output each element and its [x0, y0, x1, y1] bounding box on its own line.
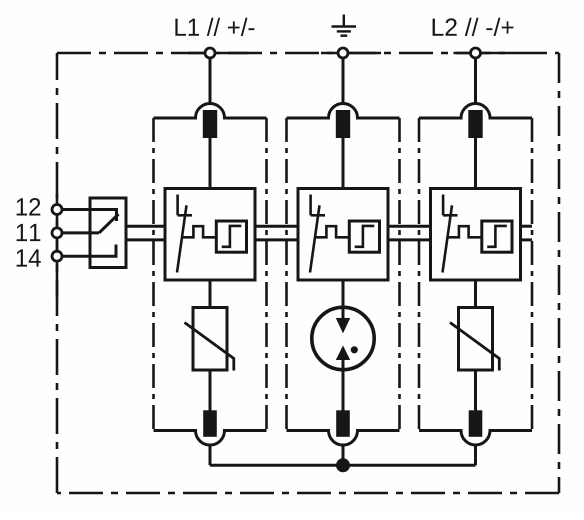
- wire L1 terminal to module 1: [209, 58, 212, 104]
- module 2 bottom plug socket (arc): [287, 431, 400, 446]
- wire terminal 14 to NO contact: [63, 245, 117, 257]
- surge waveform link module 1: [181, 226, 216, 237]
- label terminal 14: [17, 249, 41, 266]
- module 3 top plug socket (arc): [419, 104, 532, 118]
- module 1 bottom plug socket (arc): [154, 431, 267, 446]
- label L1 // +/-: [175, 18, 254, 36]
- label L2 // -/+: [433, 18, 514, 36]
- signal wire FM box to module 1 lower: [126, 238, 165, 241]
- surge indicator box module 3: [482, 221, 512, 252]
- GDT upper arrow: [336, 318, 350, 333]
- wire disconnector to varistor module 3: [474, 280, 477, 308]
- label terminal 11: [17, 224, 41, 241]
- module 2 top plug socket (arc): [287, 104, 400, 119]
- wire varistor to bottom plug module 1: [209, 370, 212, 411]
- remote signalling contact box FM: [90, 198, 126, 268]
- terminal 14: [52, 251, 62, 261]
- signal wire module 3 stub lower: [521, 238, 533, 241]
- varistor diagonal module 1: [185, 323, 234, 371]
- disconnector box module 3: [431, 189, 521, 281]
- surge indicator box module 1: [216, 221, 246, 252]
- left border solid run through terminals 12 11 14: [56, 193, 59, 297]
- module 2 top plug contact: [336, 110, 350, 138]
- terminal 12: [52, 205, 62, 215]
- surge waveform link module 3: [447, 226, 482, 237]
- terminal PE (ground): [338, 48, 348, 58]
- PE bus junction: [336, 458, 350, 472]
- varistor module 1: [193, 308, 227, 371]
- terminal 11: [52, 228, 62, 238]
- thermal disconnector switch module 3: [443, 195, 458, 273]
- module 3 bottom plug contact: [469, 410, 483, 437]
- wire module 3 plug to disconnector: [474, 138, 477, 189]
- changeover switch blade FM: [99, 214, 119, 233]
- signal wire module 3 stub upper: [521, 225, 533, 228]
- ground symbol (earth): [332, 15, 357, 36]
- top border solid run at terminal L2: [454, 52, 514, 55]
- terminal L2: [471, 48, 481, 58]
- surge indicator box module 2: [349, 221, 379, 252]
- wire module 1 riser to PE bus: [209, 445, 212, 465]
- step symbol module 2: [355, 226, 375, 247]
- label terminal 12: [17, 198, 41, 216]
- module 3 top plug contact: [468, 110, 482, 138]
- gas discharge tube module 2 (circle): [312, 307, 374, 369]
- top border solid run at terminal L1: [188, 52, 248, 55]
- signal wire FM box to module 1 upper: [126, 225, 165, 228]
- GDT lower arrow: [336, 346, 350, 361]
- varistor diagonal module 3: [450, 323, 499, 371]
- module 1 enclosure right (dashed): [265, 118, 268, 431]
- step symbol module 1: [222, 226, 242, 247]
- wire varistor to bottom plug module 3: [474, 370, 477, 411]
- wire terminal 12 to NC contact: [63, 210, 117, 222]
- wire disconnector to GDT module 2: [342, 280, 345, 319]
- module 2 enclosure right (dashed): [398, 118, 401, 431]
- top border solid run at terminal PE: [321, 52, 381, 55]
- enclosure border (dash-dot device outline): [57, 53, 559, 493]
- wire module 1 plug to disconnector: [209, 138, 212, 189]
- varistor module 3: [459, 308, 493, 371]
- wire module 2 riser to PE bus: [342, 445, 345, 465]
- module 1 bottom plug contact: [203, 410, 217, 437]
- signal wire module 1 to module 2 lower: [255, 238, 298, 241]
- thermal disconnector switch module 2: [310, 195, 325, 273]
- wire disconnector to varistor module 1: [209, 280, 212, 308]
- module 1 enclosure left (dashed): [152, 118, 155, 431]
- wire terminal 11 to common: [63, 231, 100, 234]
- signal wire module 2 to module 3 lower: [388, 238, 431, 241]
- module 1 top plug socket (arc): [154, 104, 267, 119]
- disconnector box module 1: [165, 189, 255, 281]
- module 3 bottom plug socket (arc): [419, 431, 532, 445]
- GDT dot: [351, 346, 358, 353]
- module 3 enclosure left (dashed): [418, 118, 421, 431]
- wire L2 terminal to module 3: [474, 58, 477, 104]
- wire GDT to bottom plug module 2: [342, 360, 345, 411]
- module 1 top plug contact: [203, 110, 217, 138]
- wire module 3 riser to PE bus: [474, 445, 477, 465]
- surge waveform link module 2: [314, 226, 349, 237]
- module 2 bottom plug contact: [336, 410, 350, 437]
- terminal L1: [205, 48, 215, 58]
- PE bus wire: [210, 464, 476, 467]
- thermal disconnector switch module 1: [177, 195, 192, 273]
- wire PE terminal to module 2: [342, 58, 345, 104]
- module 3 enclosure right (dashed): [531, 118, 534, 431]
- disconnector box module 2: [298, 189, 388, 281]
- signal wire module 2 to module 3 upper: [388, 225, 431, 228]
- signal wire module 1 to module 2 upper: [255, 225, 298, 228]
- step symbol module 3: [487, 226, 507, 247]
- module 2 enclosure left (dashed): [285, 118, 288, 431]
- wire module 2 plug to disconnector: [342, 138, 345, 189]
